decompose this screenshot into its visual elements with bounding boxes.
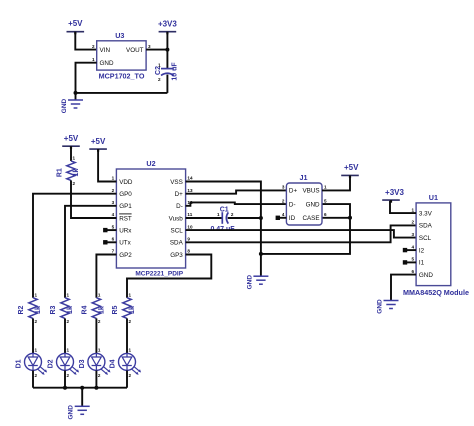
svg-text:1: 1 <box>67 348 70 353</box>
svg-text:SCL: SCL <box>171 227 184 234</box>
svg-text:SDA: SDA <box>170 240 184 247</box>
svg-text:R2: R2 <box>18 305 25 314</box>
svg-text:5: 5 <box>412 257 415 262</box>
svg-text:D+: D+ <box>175 191 184 198</box>
power symbol +3V3 (U3 output) <box>158 20 177 35</box>
svg-text:4: 4 <box>282 212 285 217</box>
svg-text:1: 1 <box>158 62 161 67</box>
svg-text:U2: U2 <box>146 159 155 168</box>
svg-text:1: 1 <box>35 348 38 353</box>
wire VOUT to node <box>146 49 167 51</box>
svg-text:C1: C1 <box>220 206 229 213</box>
wire CASE to gnd drop <box>322 217 350 219</box>
power symbol +5V (U3 input) <box>67 19 85 34</box>
svg-text:U3: U3 <box>115 31 124 40</box>
wire I2 stub <box>407 249 417 251</box>
no-connect marker I2 NC <box>403 248 407 252</box>
svg-text:13: 13 <box>187 188 193 193</box>
svg-text:2: 2 <box>158 77 161 82</box>
junction rail D3 <box>94 386 98 390</box>
svg-text:I2: I2 <box>419 247 425 254</box>
svg-text:+5V: +5V <box>91 137 106 146</box>
svg-text:1k: 1k <box>35 306 42 314</box>
junction rail D2 <box>63 386 67 390</box>
wire GP2 to R4 <box>96 255 116 298</box>
svg-text:2: 2 <box>129 319 132 324</box>
ground symbol GND (U1) <box>377 299 399 314</box>
IC U3 MCP1702 <box>92 31 151 81</box>
LED D4 <box>109 348 141 379</box>
svg-text:2: 2 <box>67 373 70 378</box>
svg-text:1: 1 <box>412 207 415 212</box>
wire C1 to VSS vertical <box>228 217 261 219</box>
svg-text:1: 1 <box>324 185 327 190</box>
wire Vusb to C1 <box>186 217 222 219</box>
svg-text:3: 3 <box>112 200 115 205</box>
wire R2 to D1 <box>32 318 34 353</box>
svg-text:GND: GND <box>61 98 68 113</box>
LED D2 <box>47 348 79 379</box>
svg-text:6: 6 <box>412 269 415 274</box>
svg-text:J1: J1 <box>300 173 308 182</box>
svg-text:2: 2 <box>412 220 415 225</box>
wire +5V to VDD <box>98 149 116 181</box>
IC U2 MCP2221 <box>112 159 193 277</box>
svg-text:D4: D4 <box>109 359 116 368</box>
junction VSS branch junction <box>259 252 263 256</box>
svg-text:6: 6 <box>112 237 115 242</box>
svg-text:+5V: +5V <box>64 134 79 143</box>
svg-text:VOUT: VOUT <box>126 47 144 54</box>
wire C2 top lead <box>166 50 168 69</box>
svg-text:1: 1 <box>67 293 70 298</box>
junction U3 gnd node <box>74 91 78 95</box>
svg-text:GP1: GP1 <box>119 203 132 210</box>
svg-text:U1: U1 <box>429 193 438 202</box>
svg-text:1k: 1k <box>129 306 136 314</box>
svg-text:R3: R3 <box>50 305 57 314</box>
svg-text:VBUS: VBUS <box>302 188 319 195</box>
svg-text:5: 5 <box>324 198 327 203</box>
capacitor C2 <box>155 50 178 93</box>
wire C2 bottom lead <box>166 75 168 93</box>
svg-text:D2: D2 <box>47 359 54 368</box>
svg-text:1: 1 <box>112 176 115 181</box>
no-connect marker ID NC <box>276 216 280 220</box>
svg-text:GND: GND <box>100 60 114 67</box>
wire +3V3 to 3.3V pin <box>390 200 416 213</box>
svg-text:CASE: CASE <box>302 215 319 222</box>
wire ID stub <box>280 217 287 219</box>
wire R3 to D2 <box>64 318 66 353</box>
wire D1 to gnd rail <box>32 371 34 388</box>
svg-text:1k: 1k <box>99 306 106 314</box>
svg-text:D+: D+ <box>289 188 298 195</box>
svg-text:2: 2 <box>98 373 101 378</box>
svg-text:10: 10 <box>187 224 193 229</box>
svg-text:D-: D- <box>289 201 296 208</box>
svg-text:14: 14 <box>187 176 193 181</box>
resistor R5 <box>112 293 136 324</box>
wire I1 stub <box>407 261 417 263</box>
wire URx stub <box>106 229 116 231</box>
svg-text:4: 4 <box>112 212 115 217</box>
wire R4 to D3 <box>95 318 97 353</box>
svg-text:1k: 1k <box>67 306 74 314</box>
svg-text:2: 2 <box>282 198 285 203</box>
svg-text:8: 8 <box>187 249 190 254</box>
wire GP3 to R5 <box>127 255 211 298</box>
svg-text:UTx: UTx <box>119 240 131 247</box>
svg-text:GP0: GP0 <box>119 191 132 198</box>
resistor R3 <box>50 293 74 324</box>
wire R1 top lead <box>70 146 72 161</box>
no-connect marker I1 NC <box>403 260 407 264</box>
junction VOUT/C2/+3V3 node <box>165 48 169 52</box>
svg-text:R1: R1 <box>57 168 64 177</box>
svg-text:2: 2 <box>67 319 70 324</box>
svg-text:4: 4 <box>412 244 415 249</box>
svg-text:1: 1 <box>129 293 132 298</box>
svg-text:SCL: SCL <box>419 235 432 242</box>
wire GP1 to R3 <box>65 206 116 298</box>
svg-text:GND: GND <box>306 201 320 208</box>
junction rail gnd drop <box>80 386 84 390</box>
svg-text:3: 3 <box>412 232 415 237</box>
svg-text:3: 3 <box>282 185 285 190</box>
wire +3V3 drop <box>166 32 168 50</box>
svg-text:GP3: GP3 <box>170 252 183 259</box>
svg-text:1: 1 <box>92 57 95 62</box>
svg-text:GND: GND <box>377 299 384 314</box>
svg-text:MMA8452Q Module: MMA8452Q Module <box>403 288 469 297</box>
svg-text:11: 11 <box>187 212 192 217</box>
svg-text:2: 2 <box>231 212 234 217</box>
capacitor C1 <box>210 206 235 233</box>
wire D2 to gnd rail <box>64 371 66 388</box>
svg-text:2: 2 <box>92 44 95 49</box>
svg-text:GP2: GP2 <box>119 252 132 259</box>
svg-text:ID: ID <box>289 215 296 222</box>
svg-text:VIN: VIN <box>100 47 111 54</box>
svg-text:1: 1 <box>98 293 101 298</box>
LED D1 <box>15 348 47 379</box>
svg-text:D-: D- <box>176 203 183 210</box>
svg-text:5: 5 <box>112 224 115 229</box>
wire VSS to ground <box>186 182 261 277</box>
svg-text:VDD: VDD <box>119 179 133 186</box>
svg-text:R5: R5 <box>112 305 119 314</box>
wire gnd stub <box>75 93 77 100</box>
svg-text:1: 1 <box>35 293 38 298</box>
wire UTx stub <box>106 241 116 243</box>
wire R5 to D4 <box>126 318 128 353</box>
wire J1 GND to VSS gnd <box>261 204 350 254</box>
svg-text:1: 1 <box>98 348 101 353</box>
ground symbol GND (U3) <box>61 98 83 113</box>
svg-text:GND: GND <box>419 272 433 279</box>
svg-text:SDA: SDA <box>419 223 433 230</box>
svg-text:+5V: +5V <box>344 163 359 172</box>
wire LED gnd rail <box>33 387 127 389</box>
wire VBUS to +5V <box>322 175 350 190</box>
svg-text:R4: R4 <box>82 305 89 314</box>
power symbol +5V (R1 pullup) <box>62 134 80 149</box>
svg-text:MCP2221_PDIP: MCP2221_PDIP <box>135 270 183 277</box>
svg-text:2: 2 <box>129 373 132 378</box>
wire gnd rail to C2 <box>76 92 168 94</box>
svg-text:+3V3: +3V3 <box>385 188 404 197</box>
svg-text:2: 2 <box>98 319 101 324</box>
svg-text:1k: 1k <box>73 169 80 177</box>
LED D3 <box>79 348 111 379</box>
wire U2 D+ to J1 D+ <box>186 190 287 193</box>
svg-text:3: 3 <box>148 44 151 49</box>
svg-text:D1: D1 <box>15 359 22 368</box>
svg-text:2: 2 <box>112 188 115 193</box>
svg-text:GND: GND <box>246 275 253 290</box>
wire GP0 to R2 <box>33 194 116 298</box>
wire U3 GND down <box>76 63 97 93</box>
svg-text:1: 1 <box>129 348 132 353</box>
svg-text:1: 1 <box>73 156 76 161</box>
IC U1 MMA8452Q module <box>403 193 469 297</box>
resistor R4 <box>82 293 106 324</box>
svg-text:URx: URx <box>119 227 132 234</box>
svg-text:1: 1 <box>217 212 220 217</box>
svg-text:2: 2 <box>35 373 38 378</box>
wire U2 SCL to U1 SCL <box>186 230 417 238</box>
ground symbol GND (VSS) <box>246 275 268 290</box>
svg-text:+3V3: +3V3 <box>158 20 177 29</box>
power symbol +5V (U2 VDD) <box>89 137 107 152</box>
wire U1 GND to ground <box>391 275 416 301</box>
svg-text:10 uF: 10 uF <box>171 62 178 81</box>
wire +5V to U3 VIN <box>75 32 96 50</box>
wire U2 SDA to U1 SDA <box>186 225 417 242</box>
svg-text:2: 2 <box>35 319 38 324</box>
resistor R1 <box>57 156 81 186</box>
svg-text:VSS: VSS <box>170 179 183 186</box>
power symbol +3V3 (U1) <box>382 188 404 203</box>
resistor R2 <box>18 293 42 324</box>
svg-text:+5V: +5V <box>68 19 83 28</box>
wire rail to ground <box>81 388 83 407</box>
svg-text:RST: RST <box>119 215 132 222</box>
wire D3 to gnd rail <box>95 371 97 388</box>
svg-text:3.3V: 3.3V <box>419 210 433 217</box>
svg-text:Vusb: Vusb <box>169 215 184 222</box>
ground symbol GND (LEDs) <box>68 405 90 420</box>
no-connect marker UTx NC <box>103 240 107 244</box>
svg-text:MCP1702_TO: MCP1702_TO <box>99 72 145 81</box>
junction VSS/C1 junction <box>259 216 263 220</box>
wire D4 to gnd rail <box>126 371 128 388</box>
junction CASE junction <box>348 216 352 220</box>
svg-text:D3: D3 <box>79 359 86 368</box>
connector J1 <box>282 173 327 225</box>
svg-text:7: 7 <box>112 249 115 254</box>
no-connect marker URx NC <box>103 228 107 232</box>
svg-text:I1: I1 <box>419 260 425 267</box>
svg-text:9: 9 <box>187 237 190 242</box>
wire R1 to RST <box>71 180 116 218</box>
svg-text:GND: GND <box>68 405 75 420</box>
wire U2 D- to J1 D- <box>186 202 287 205</box>
svg-text:6: 6 <box>324 212 327 217</box>
svg-text:2: 2 <box>73 181 76 186</box>
power symbol +5V (J1 VBUS) <box>341 163 359 178</box>
